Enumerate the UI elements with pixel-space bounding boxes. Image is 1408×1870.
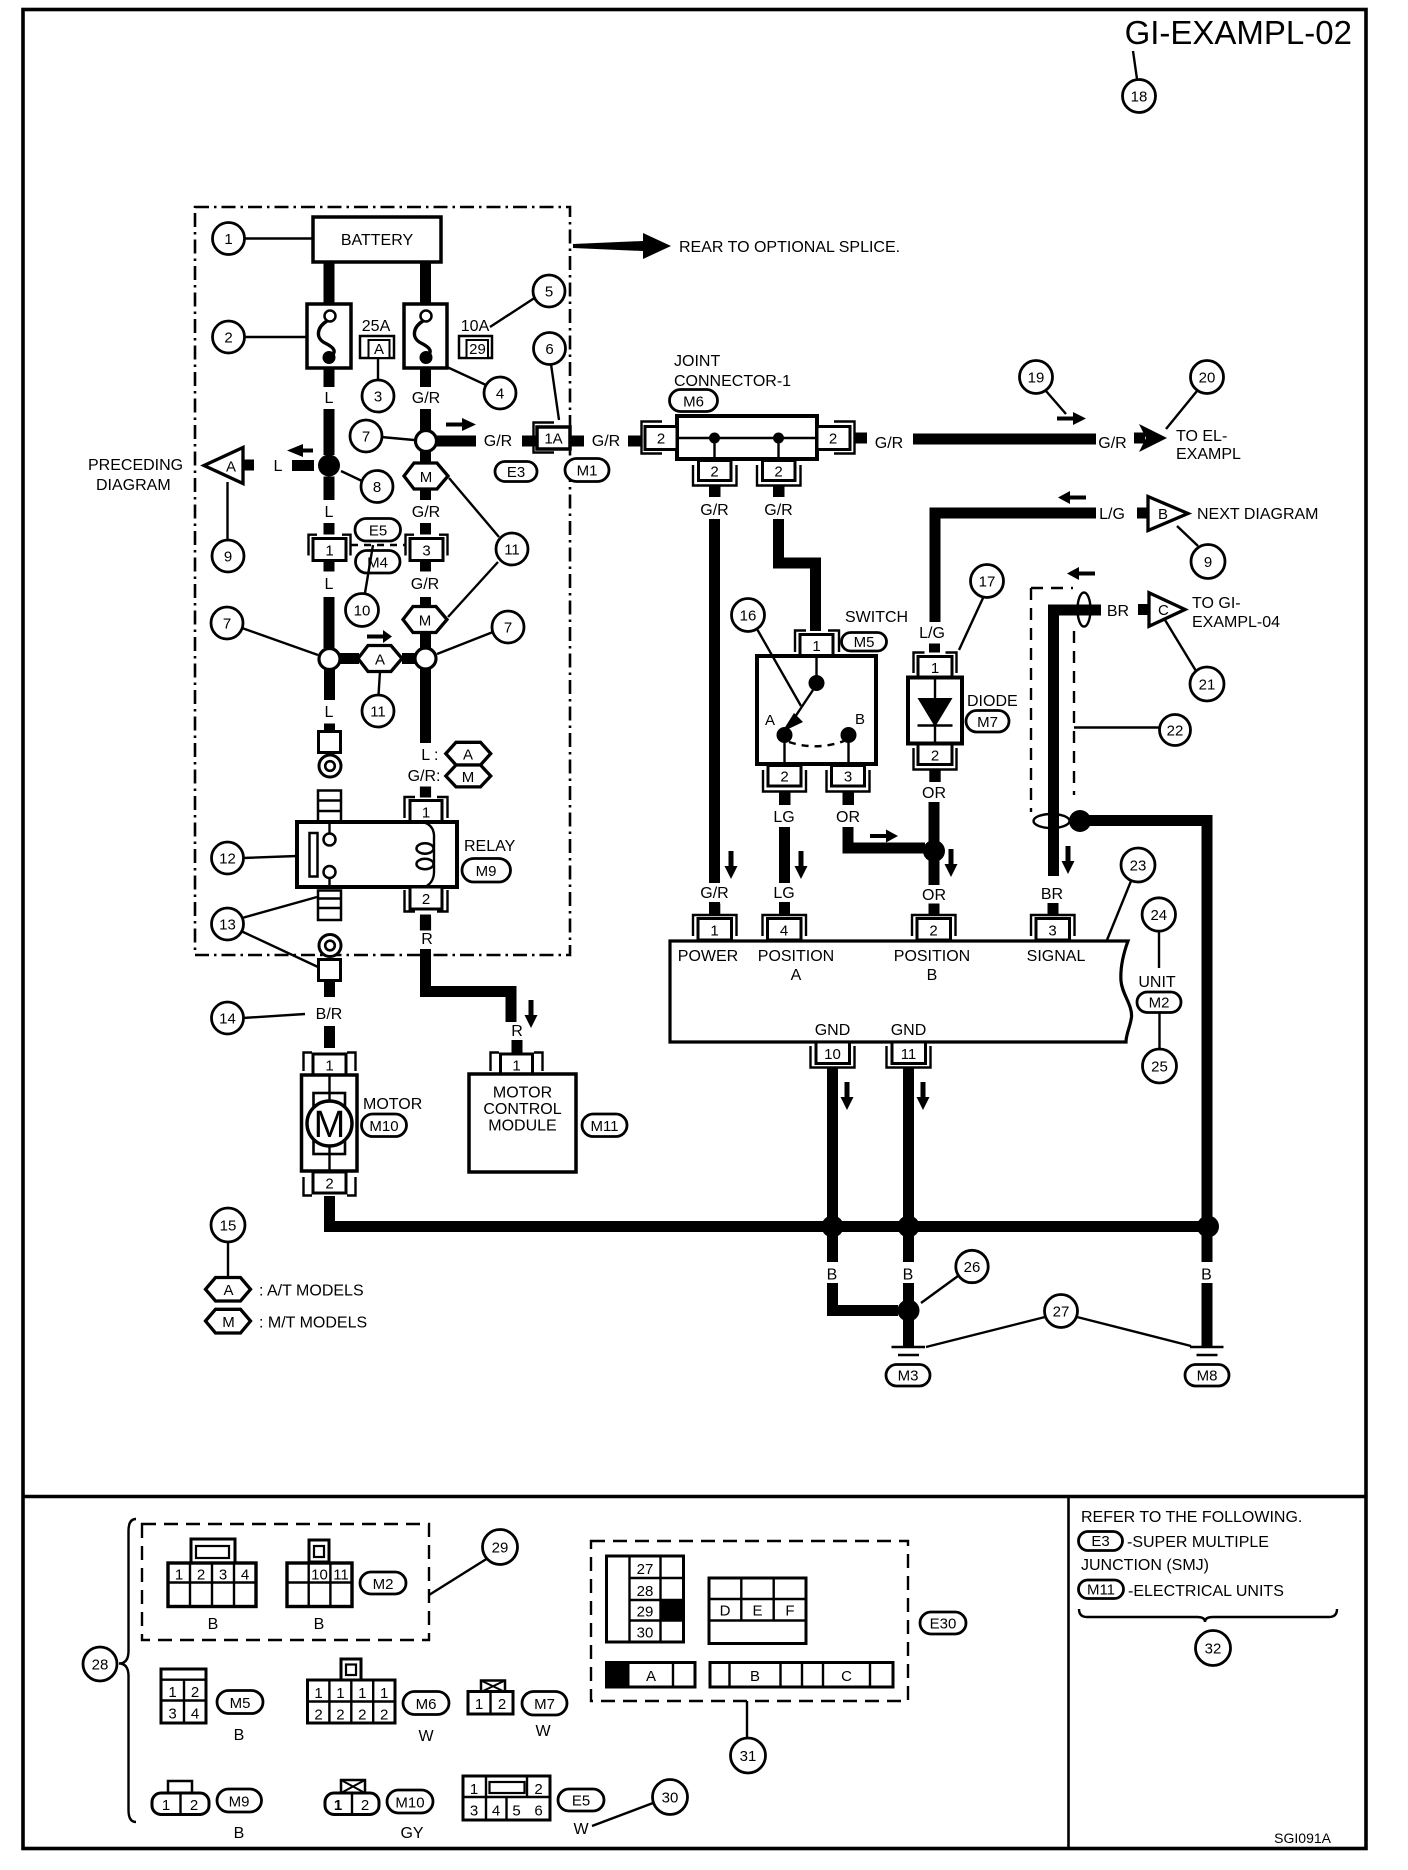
- motor body M10: [302, 1075, 358, 1171]
- M7 oval: [966, 711, 1009, 733]
- connector M2-a grid: [168, 1563, 256, 1607]
- svg-text:18: 18: [1131, 89, 1148, 106]
- svg-text:1: 1: [334, 1797, 342, 1814]
- svg-text:B: B: [927, 967, 938, 984]
- leader to circle 18: [1133, 51, 1137, 79]
- OR wire to junction dot: [929, 802, 940, 848]
- E3 oval ref: [1079, 1532, 1123, 1551]
- circle 10: [365, 545, 373, 593]
- svg-text:1: 1: [512, 1058, 520, 1075]
- svg-text:1: 1: [325, 1058, 333, 1075]
- svg-text:4: 4: [241, 1567, 249, 1584]
- M6 oval: [670, 390, 718, 412]
- E30 dashed group box: [591, 1541, 908, 1701]
- svg-text:32: 32: [1205, 1641, 1222, 1658]
- svg-text:G/R: G/R: [484, 433, 512, 450]
- connector M6: [341, 1659, 361, 1680]
- circle 20: [1166, 391, 1197, 429]
- fusible link right (item 4): [404, 304, 447, 368]
- connector M2-a latch: [191, 1539, 235, 1563]
- svg-text:MOTOR: MOTOR: [493, 1085, 552, 1102]
- svg-text:10: 10: [354, 603, 371, 620]
- svg-text:B: B: [903, 1267, 914, 1284]
- svg-text:M9: M9: [229, 1794, 250, 1811]
- svg-text:DIODE: DIODE: [967, 693, 1018, 710]
- JC left pin 2: [642, 422, 663, 454]
- svg-text:1: 1: [168, 1684, 176, 1701]
- svg-text:3: 3: [219, 1567, 227, 1584]
- svg-text:R: R: [511, 1023, 523, 1040]
- M1 oval: [565, 459, 609, 482]
- svg-text:2: 2: [498, 1696, 506, 1713]
- bottom section separator line: [23, 1495, 1366, 1499]
- svg-text:L/G: L/G: [919, 625, 945, 642]
- circle 32: [1196, 1631, 1231, 1666]
- svg-text:10: 10: [824, 1046, 841, 1063]
- M11 oval ref: [1079, 1580, 1124, 1599]
- svg-text:25: 25: [1151, 1059, 1168, 1076]
- svg-text:7: 7: [504, 620, 512, 637]
- circle 7 label: [381, 437, 414, 440]
- GND wire 10: [827, 1068, 838, 1222]
- legend M/T: [206, 1309, 251, 1333]
- switch pin 3: [832, 766, 865, 787]
- B/R wire to motor: [324, 981, 335, 998]
- triangle A preceding diagram: [243, 460, 254, 471]
- unit pin 10: [816, 1042, 850, 1064]
- circle 1: [244, 237, 313, 239]
- bottom section vertical divider: [1067, 1497, 1070, 1849]
- svg-text:30: 30: [637, 1625, 654, 1642]
- svg-text:2: 2: [657, 431, 665, 448]
- svg-text:OR: OR: [922, 887, 946, 904]
- svg-text:1A: 1A: [544, 431, 562, 448]
- svg-text:2: 2: [929, 923, 937, 940]
- M2 oval bottom: [360, 1572, 406, 1594]
- JC right pin 2: [834, 422, 855, 454]
- svg-text:JUNCTION (SMJ): JUNCTION (SMJ): [1081, 1557, 1209, 1574]
- svg-text:1: 1: [475, 1696, 483, 1713]
- motor wire to ground rail: [330, 1196, 1208, 1227]
- connector M2-b grid: [287, 1563, 352, 1607]
- svg-text:A: A: [791, 967, 802, 984]
- svg-text:M9: M9: [476, 863, 497, 880]
- svg-text:11: 11: [333, 1567, 349, 1584]
- svg-text:B: B: [1158, 506, 1168, 523]
- circle 19: [1046, 391, 1066, 414]
- svg-text:11: 11: [370, 704, 386, 721]
- R wire from relay to MCM: [420, 915, 431, 929]
- ground symbol M3: [892, 1346, 926, 1348]
- svg-text:20: 20: [1199, 370, 1216, 387]
- svg-text:EXAMPL-04: EXAMPL-04: [1192, 614, 1280, 631]
- svg-text:GND: GND: [815, 1022, 851, 1039]
- svg-text:2: 2: [422, 891, 430, 908]
- svg-text:A: A: [223, 1282, 233, 1299]
- svg-text:LG: LG: [773, 809, 794, 826]
- circle 29: [429, 1558, 488, 1595]
- svg-text:29: 29: [492, 1540, 509, 1557]
- wire to joint connector: [628, 436, 642, 447]
- svg-text:M3: M3: [898, 1368, 919, 1385]
- svg-text:E: E: [752, 1603, 762, 1620]
- svg-text:8: 8: [373, 479, 381, 496]
- svg-text:E5: E5: [369, 523, 387, 540]
- svg-text:M1: M1: [577, 463, 598, 480]
- splice arrow to REAR TO OPTIONAL SPLICE: [573, 233, 671, 259]
- svg-text:JOINT: JOINT: [674, 353, 720, 370]
- svg-text:16: 16: [740, 608, 757, 625]
- ground symbol M8: [1190, 1346, 1224, 1348]
- svg-text:B: B: [234, 1727, 245, 1744]
- M4 oval: [356, 551, 401, 574]
- circle 13: [242, 897, 317, 918]
- M hexagon on G/R wire: [420, 452, 431, 465]
- circle 14: [243, 1014, 305, 1018]
- dashed connector boundary: [351, 544, 405, 546]
- svg-text:G/R: G/R: [700, 502, 728, 519]
- svg-text:M2: M2: [1149, 995, 1170, 1012]
- svg-text:M: M: [419, 613, 432, 630]
- legend A/T: [227, 1242, 229, 1277]
- JC bottom pin b: [763, 461, 796, 481]
- svg-text:G/R: G/R: [412, 504, 440, 521]
- svg-text:G/R: G/R: [412, 390, 440, 407]
- svg-text:EXAMPL: EXAMPL: [1176, 446, 1241, 463]
- svg-text:C: C: [841, 1668, 852, 1685]
- MCM pin 1: [491, 1053, 500, 1072]
- relay pin 1: [420, 787, 431, 798]
- L wire below dot: [324, 477, 335, 501]
- wire label L below fuse1: [324, 368, 335, 387]
- svg-text:BR: BR: [1041, 886, 1063, 903]
- svg-text:E5: E5: [572, 1793, 590, 1810]
- svg-text:F: F: [785, 1603, 794, 1620]
- connector M5: [161, 1669, 206, 1723]
- svg-text:L: L: [325, 576, 334, 593]
- BR wire from C triangle down: [1054, 610, 1102, 876]
- svg-text:11: 11: [504, 542, 520, 559]
- unit pin 3: [1048, 904, 1059, 915]
- svg-text:23: 23: [1130, 858, 1147, 875]
- dash wire segment: [292, 460, 314, 471]
- svg-text:3: 3: [422, 543, 430, 560]
- relay box M9: [297, 822, 457, 887]
- M2 oval right: [1137, 992, 1181, 1013]
- big arrow to EL-EXAMPL: [1134, 433, 1145, 444]
- svg-text:-SUPER MULTIPLE: -SUPER MULTIPLE: [1127, 1534, 1269, 1551]
- svg-text:1: 1: [336, 1685, 344, 1702]
- G/R wire down then to switch: [779, 519, 816, 631]
- dash-dot boundary box: [195, 207, 570, 955]
- svg-text:DIAGRAM: DIAGRAM: [96, 477, 171, 494]
- svg-text:OR: OR: [922, 785, 946, 802]
- svg-text:W: W: [573, 1821, 589, 1838]
- svg-text:A: A: [765, 712, 775, 729]
- connector pin 3 (M4/E5 row): [406, 535, 415, 556]
- circle 3: [377, 358, 379, 380]
- svg-text:A: A: [463, 747, 473, 764]
- junction dot BR/shield: [1069, 810, 1091, 832]
- wire battery left: [324, 262, 335, 304]
- svg-text:A: A: [374, 341, 384, 358]
- ring terminal: [319, 755, 341, 777]
- svg-text:1: 1: [470, 1781, 478, 1798]
- svg-text:D: D: [720, 1603, 731, 1620]
- svg-text:G/R:: G/R:: [408, 768, 441, 785]
- svg-text:G/R: G/R: [1098, 435, 1126, 452]
- brace item 28: [119, 1519, 136, 1822]
- svg-text:27: 27: [637, 1561, 654, 1578]
- svg-text:BATTERY: BATTERY: [341, 232, 414, 249]
- svg-text:PRECEDING: PRECEDING: [88, 457, 183, 474]
- circle 23: [1107, 881, 1131, 940]
- svg-text:10A: 10A: [461, 318, 490, 335]
- svg-text:2: 2: [380, 1707, 388, 1724]
- connector M2-b latch: [309, 1540, 329, 1562]
- switch pin 2: [768, 766, 801, 787]
- circle 26: [921, 1276, 958, 1303]
- svg-text:6: 6: [534, 1803, 542, 1820]
- svg-text:2: 2: [780, 769, 788, 786]
- svg-text:1: 1: [314, 1685, 322, 1702]
- circle 17: [959, 598, 983, 650]
- svg-text:MOTOR: MOTOR: [363, 1096, 422, 1113]
- svg-text:4: 4: [496, 386, 504, 403]
- svg-text:B: B: [827, 1267, 838, 1284]
- svg-text:TO EL-: TO EL-: [1176, 428, 1227, 445]
- right B wire: [1197, 1216, 1219, 1238]
- svg-text:13: 13: [219, 917, 236, 934]
- svg-text:4: 4: [492, 1803, 500, 1820]
- svg-text:17: 17: [979, 574, 996, 591]
- svg-text:SIGNAL: SIGNAL: [1027, 948, 1086, 965]
- svg-text:L: L: [325, 390, 334, 407]
- M11 oval: [582, 1114, 627, 1137]
- svg-text:21: 21: [1199, 677, 1216, 694]
- svg-text:3: 3: [168, 1706, 176, 1723]
- svg-text:B: B: [208, 1616, 219, 1633]
- svg-text:2: 2: [190, 1797, 198, 1814]
- svg-text:W: W: [535, 1723, 551, 1740]
- wire node to 1A: [437, 436, 477, 447]
- svg-text:1: 1: [422, 805, 430, 822]
- GND wire 11: [903, 1068, 914, 1222]
- svg-text:29: 29: [469, 341, 486, 358]
- svg-text:SWITCH: SWITCH: [845, 609, 908, 626]
- svg-text:22: 22: [1167, 723, 1184, 740]
- svg-text:B: B: [750, 1668, 760, 1685]
- fusible link left (item 2): [307, 304, 351, 368]
- unit pin 11: [892, 1042, 926, 1064]
- svg-text:7: 7: [223, 616, 231, 633]
- svg-text:2: 2: [197, 1567, 205, 1584]
- svg-text:BR: BR: [1107, 603, 1129, 620]
- fuse box A: [360, 336, 394, 358]
- svg-text:POWER: POWER: [678, 948, 738, 965]
- node circle 7 on G/R wire: [416, 431, 437, 452]
- svg-text:L: L: [325, 504, 334, 521]
- svg-text:GI-EXAMPL-02: GI-EXAMPL-02: [1125, 14, 1352, 51]
- motor pin 1: [304, 1053, 313, 1072]
- svg-text:2: 2: [191, 1684, 199, 1701]
- svg-text:1: 1: [710, 923, 718, 940]
- svg-text:CONNECTOR-1: CONNECTOR-1: [674, 373, 791, 390]
- circle 25: [1158, 1013, 1160, 1049]
- svg-text:M: M: [420, 469, 433, 486]
- svg-text:1: 1: [812, 638, 820, 655]
- svg-text:25A: 25A: [362, 318, 391, 335]
- svg-text:19: 19: [1028, 370, 1045, 387]
- wire battery right: [420, 262, 431, 304]
- svg-text:2: 2: [710, 464, 718, 481]
- svg-text:3: 3: [374, 389, 382, 406]
- C triangle to GI-EXAMPL-04: [1149, 593, 1185, 627]
- svg-text:REAR TO OPTIONAL SPLICE.: REAR TO OPTIONAL SPLICE.: [679, 239, 900, 256]
- svg-text:M5: M5: [854, 634, 875, 651]
- E30 SMJ grid: [607, 1556, 684, 1642]
- G/R wire down to unit pin 1: [709, 519, 720, 883]
- M5 oval (switch): [842, 633, 887, 652]
- svg-text:28: 28: [637, 1583, 654, 1600]
- svg-text:E3: E3: [507, 464, 525, 481]
- E30 DEF grid: [709, 1578, 806, 1644]
- svg-text:G/R: G/R: [764, 502, 792, 519]
- relay pin 2: [405, 890, 416, 912]
- diode pin 2: [918, 744, 952, 765]
- svg-text:6: 6: [545, 341, 553, 358]
- circle 9: [212, 540, 244, 572]
- svg-text:2: 2: [829, 431, 837, 448]
- svg-text:2: 2: [361, 1797, 369, 1814]
- svg-text:2: 2: [314, 1707, 322, 1724]
- diode body M7: [908, 678, 962, 744]
- arrow right above A hexagon: [367, 630, 392, 643]
- svg-text:W: W: [418, 1728, 434, 1745]
- svg-text:2: 2: [534, 1781, 542, 1798]
- motor pin 2: [313, 1172, 346, 1193]
- arrow right above node: [446, 418, 476, 431]
- node circles row 2: [319, 649, 340, 670]
- svg-text:CONTROL: CONTROL: [483, 1101, 561, 1118]
- circle 11 lower: [379, 672, 381, 696]
- circle 7 left: [242, 628, 318, 655]
- svg-text:E30: E30: [930, 1616, 957, 1633]
- circle 11 upper: [449, 478, 499, 537]
- svg-text:L/G: L/G: [1099, 506, 1125, 523]
- M hexagon lower: [403, 607, 447, 633]
- svg-text:NEXT DIAGRAM: NEXT DIAGRAM: [1197, 506, 1319, 523]
- E3 oval: [495, 462, 537, 482]
- svg-text:A: A: [226, 459, 236, 476]
- circle 15: [211, 1208, 245, 1242]
- svg-text:L :: L :: [421, 747, 438, 764]
- svg-text:B/R: B/R: [316, 1006, 343, 1023]
- switch arm: [795, 690, 813, 717]
- svg-text:1: 1: [358, 1685, 366, 1702]
- svg-text:GND: GND: [891, 1022, 927, 1039]
- battery box: [313, 217, 441, 262]
- circle 7 right: [437, 632, 493, 654]
- svg-text:M8: M8: [1197, 1368, 1218, 1385]
- svg-text:M5: M5: [230, 1695, 251, 1712]
- svg-text:9: 9: [1204, 554, 1212, 571]
- L/G wire from B triangle to diode: [935, 513, 1096, 622]
- switch pin 1: [795, 631, 806, 653]
- svg-text:M7: M7: [977, 714, 998, 731]
- small square connector 2: [319, 960, 341, 981]
- svg-text:1: 1: [931, 660, 939, 677]
- svg-text:M10: M10: [369, 1118, 398, 1135]
- svg-text:31: 31: [740, 1748, 757, 1765]
- svg-text:GY: GY: [400, 1825, 423, 1842]
- svg-text:M11: M11: [590, 1118, 618, 1135]
- svg-text:M: M: [222, 1314, 235, 1331]
- svg-text:C: C: [1158, 602, 1169, 619]
- svg-text:3: 3: [470, 1803, 478, 1820]
- fusible element above relay: [318, 791, 341, 823]
- svg-text:A: A: [375, 652, 385, 669]
- svg-text:7: 7: [362, 429, 370, 446]
- svg-text:M2: M2: [373, 1576, 394, 1593]
- circle 6: [551, 364, 559, 420]
- OR wire to junction: [848, 827, 925, 848]
- A hexagon between nodes: [340, 653, 359, 664]
- svg-text:26: 26: [964, 1259, 981, 1276]
- svg-text:1: 1: [380, 1685, 388, 1702]
- svg-text:3: 3: [1048, 923, 1056, 940]
- circle 12: [243, 856, 297, 858]
- circle 30: [592, 1803, 653, 1826]
- svg-text:11: 11: [901, 1046, 917, 1063]
- svg-text:2: 2: [336, 1707, 344, 1724]
- L wire to relay branch: [324, 670, 335, 701]
- svg-text:R: R: [421, 931, 433, 948]
- svg-text:24: 24: [1150, 907, 1167, 924]
- wire JC to EL-EXAMPL arrow: [913, 434, 1096, 445]
- svg-text:9: 9: [224, 549, 232, 566]
- svg-text:G/R: G/R: [592, 433, 620, 450]
- svg-text:LG: LG: [773, 885, 794, 902]
- circle 21: [1165, 620, 1196, 671]
- svg-text:3: 3: [844, 769, 852, 786]
- svg-text:: A/T MODELS: : A/T MODELS: [259, 1283, 364, 1300]
- svg-text:M11: M11: [1087, 1582, 1115, 1599]
- svg-text:1: 1: [162, 1797, 170, 1814]
- svg-text:RELAY: RELAY: [464, 838, 516, 855]
- svg-text:M6: M6: [416, 1696, 437, 1713]
- small square connector: [319, 732, 341, 753]
- svg-text:28: 28: [92, 1657, 109, 1674]
- brace item 32: [1079, 1609, 1337, 1622]
- circle 4: [484, 377, 516, 409]
- wire label G/R below fuse2: [420, 368, 431, 387]
- connector 1A (SMJ): [534, 423, 555, 453]
- svg-text:4: 4: [191, 1706, 199, 1723]
- M2 dashed group box: [142, 1524, 429, 1640]
- connector M9: [168, 1781, 192, 1793]
- diode pin 1: [914, 653, 925, 674]
- leader fuse2 to circle 4: [447, 367, 486, 385]
- fusible element below relay: [318, 891, 341, 921]
- left arrow to preceding diagram: [287, 444, 313, 457]
- svg-text:14: 14: [219, 1011, 236, 1028]
- circle 16: [757, 629, 801, 706]
- circle 28: [83, 1647, 117, 1681]
- motor control module box: [469, 1074, 576, 1172]
- svg-text:G/R: G/R: [411, 576, 439, 593]
- svg-text:4: 4: [780, 923, 788, 940]
